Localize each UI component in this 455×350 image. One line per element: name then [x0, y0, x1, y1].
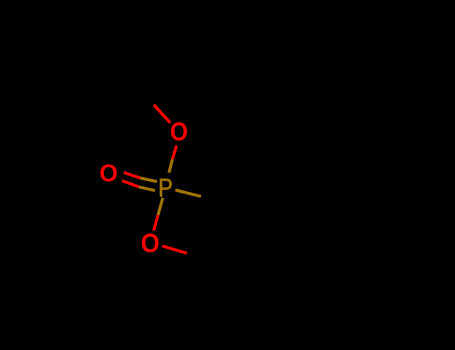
bond P-O(top) olive half: [169, 159, 172, 172]
wire P-C1 black half: [199, 197, 233, 207]
bond P=O double bond lower line red half: [122, 181, 139, 187]
atom O (top ester O): [171, 122, 187, 140]
bond O(bottom)-CH2 red half: [162, 246, 187, 253]
bond P=O double bond upper line olive half: [140, 178, 157, 182]
atom O (bottom ester O): [142, 234, 159, 253]
wire ethyl bottom O-CH2 black half: [186, 253, 222, 263]
bond P-O(top) red half: [172, 146, 176, 160]
wire benzylic C1 to ring V1: [233, 171, 297, 206]
bond P-O(bottom) olive half: [158, 198, 163, 215]
node ring edge V4-V5: [357, 60, 392, 110]
bond P=O double bond upper line red half: [124, 173, 141, 179]
bond O(top)-CH2 red half: [154, 105, 171, 123]
wire ethyl bottom CH2-CH3: [223, 263, 240, 331]
node ring edge V6-V1: [297, 168, 360, 171]
bond P-C1 olive half: [175, 190, 201, 196]
node ring edge V5-V6: [360, 110, 392, 168]
wire ethyl top CH2-CH3: [128, 27, 145, 80]
bond P-O(bottom) red half: [154, 215, 158, 230]
atom O (phosphoryl O=P): [100, 164, 116, 181]
node ring inner aromatic line 3: [300, 158, 351, 161]
node ring edge V1-V2: [262, 117, 297, 171]
node ring inner aromatic line 1: [272, 75, 299, 120]
node ring edge V2-V3: [262, 63, 295, 117]
atom P: [160, 179, 172, 197]
node ring edge V3-V4: [295, 60, 357, 63]
node ring inner aromatic line 2: [362, 71, 389, 112]
wire ethyl top O-CH2 black half: [128, 80, 154, 106]
wire: benzene ring (carbon skeleton, drawn near-black): [128, 27, 392, 331]
bond P=O double bond lower line olive half: [139, 187, 155, 191]
